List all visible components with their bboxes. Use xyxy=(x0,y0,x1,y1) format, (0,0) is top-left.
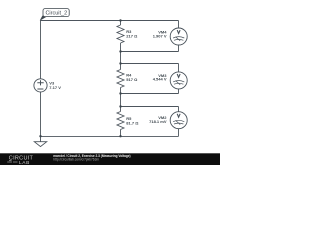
resistor R5 xyxy=(117,112,124,130)
node tap1 xyxy=(119,50,121,52)
node tap4 xyxy=(119,105,121,107)
svg-text:7.17 V: 7.17 V xyxy=(49,85,61,90)
node top junction xyxy=(119,19,121,21)
wire tap VM3 top xyxy=(121,64,179,73)
wire VM4 top stub xyxy=(178,21,180,29)
svg-text:1.907 V: 1.907 V xyxy=(153,33,167,38)
node bottom junction xyxy=(119,135,121,137)
svg-text:http://circuitlab.com/c/7pkb76: http://circuitlab.com/c/7pkb763m xyxy=(53,158,99,162)
wire left rail lower xyxy=(40,92,42,136)
voltmeter VM4 xyxy=(170,28,187,45)
svg-text:217 Ω: 217 Ω xyxy=(126,33,138,38)
svg-text:81.7 Ω: 81.7 Ω xyxy=(126,120,139,125)
wire tap VM2 top xyxy=(121,107,179,112)
svg-text:517 Ω: 517 Ω xyxy=(126,77,138,82)
wire tap VM4 bottom xyxy=(121,45,179,52)
svg-text:Circuit_2: Circuit_2 xyxy=(45,10,67,16)
node Circuit_2 flag xyxy=(40,9,69,21)
svg-text:4.544 V: 4.544 V xyxy=(153,77,167,82)
node tap2 xyxy=(119,62,121,64)
node tap3 xyxy=(119,92,121,94)
voltmeter VM2 xyxy=(170,112,187,129)
node ground junction xyxy=(39,135,41,137)
wire VM2 bottom stub xyxy=(178,128,180,136)
voltage source V3 xyxy=(34,79,47,92)
voltmeter VM3 xyxy=(170,72,187,89)
wire middle rail segments xyxy=(120,21,122,137)
wire left rail upper xyxy=(40,21,42,79)
wire tap VM3 bottom xyxy=(121,89,179,94)
wire bottom rail xyxy=(41,135,179,137)
wire top rail xyxy=(41,20,179,22)
ground xyxy=(34,136,46,146)
resistor R4 xyxy=(117,70,124,88)
footer logo wires xyxy=(7,160,17,162)
footer bar xyxy=(0,153,220,165)
svg-text:LAB: LAB xyxy=(19,160,30,165)
svg-text:718.1 mV: 718.1 mV xyxy=(149,119,167,124)
resistor R3 xyxy=(117,25,124,43)
